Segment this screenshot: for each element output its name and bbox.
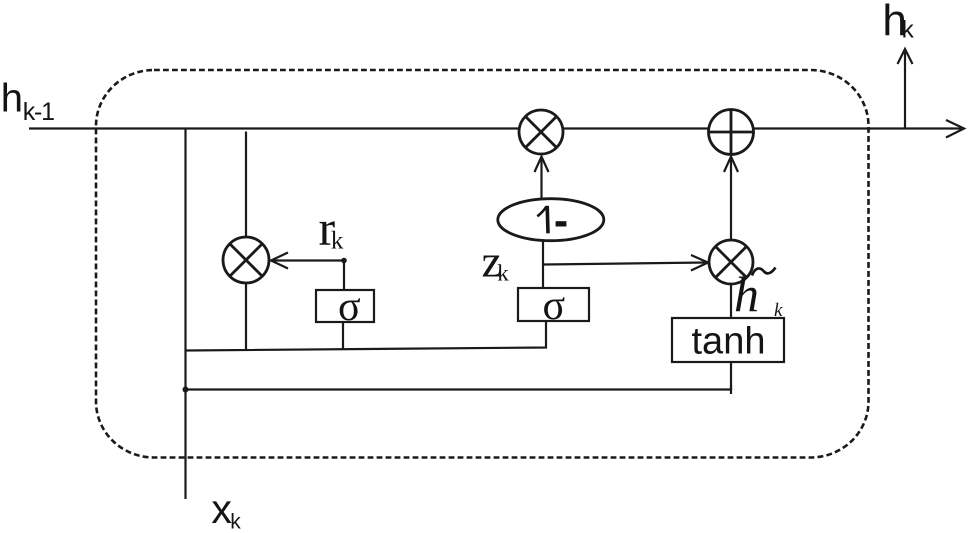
- svg-text:k: k: [230, 511, 241, 533]
- svg-text:h: h: [734, 266, 759, 322]
- svg-text:k: k: [774, 300, 783, 321]
- svg-text:k: k: [497, 261, 509, 286]
- svg-text:k: k: [331, 227, 344, 254]
- svg-text:tanh: tanh: [692, 321, 766, 363]
- svg-text:x: x: [211, 486, 232, 532]
- svg-text:h: h: [1, 77, 23, 121]
- svg-text:k-1: k-1: [23, 98, 54, 126]
- svg-text:σ: σ: [338, 284, 361, 330]
- svg-text:σ: σ: [543, 283, 566, 329]
- svg-text:k: k: [902, 16, 915, 43]
